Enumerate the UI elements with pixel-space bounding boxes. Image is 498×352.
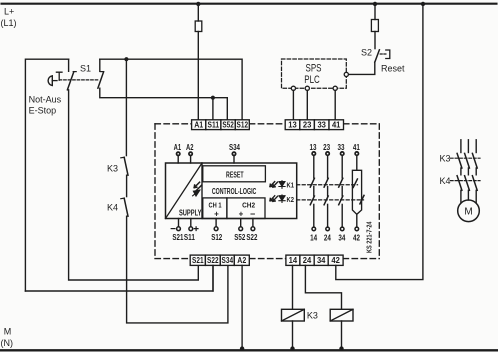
svg-text:S21: S21 xyxy=(192,256,204,265)
svg-text:S52: S52 xyxy=(234,233,245,242)
svg-text:+: + xyxy=(214,210,219,219)
wire: S22 return xyxy=(25,265,213,291)
svg-text:PLC: PLC xyxy=(304,74,320,86)
svg-text:KS 221-7-24: KS 221-7-24 xyxy=(365,221,374,253)
svg-text:42: 42 xyxy=(331,256,340,265)
e-stop mushroom head xyxy=(48,76,52,86)
pin A1 xyxy=(177,152,180,163)
node: K4 on rail xyxy=(339,346,343,350)
wire: 14 to K3 coil xyxy=(292,265,294,309)
contact S1a (E-stop NC contact) xyxy=(67,59,76,90)
three phase line 2 xyxy=(465,140,470,200)
svg-text:A1: A1 xyxy=(194,121,203,130)
svg-text:S1: S1 xyxy=(80,64,91,74)
labels terminal strip S21 S22 S34 A2 xyxy=(192,256,247,265)
pin S21 xyxy=(177,219,181,231)
svg-text:A2: A2 xyxy=(237,256,246,265)
linkage K2 dashed xyxy=(297,199,364,201)
minus sign at S21 xyxy=(171,228,175,230)
terminal circle SPS to 23 xyxy=(305,86,309,90)
svg-text:K3: K3 xyxy=(107,164,118,174)
svg-text:42: 42 xyxy=(353,233,360,242)
svg-text:(L1): (L1) xyxy=(1,18,17,28)
svg-text:K4: K4 xyxy=(107,203,118,213)
node: A2 on rail xyxy=(240,346,244,350)
supply rail L+ (L1) xyxy=(2,3,497,5)
wire: K3 to K4 contact xyxy=(126,175,128,196)
svg-text:S22: S22 xyxy=(246,233,257,242)
e-stop stem xyxy=(52,80,57,82)
supply section divider xyxy=(201,163,203,219)
linkage K3 contactor dashed xyxy=(451,157,481,159)
terminal strip A1 S11 S52 S12 xyxy=(192,120,250,130)
svg-text:CONTROL-LOGIC: CONTROL-LOGIC xyxy=(212,187,257,196)
svg-text:E-Stop: E-Stop xyxy=(29,106,57,116)
fuse F2 xyxy=(371,20,378,32)
svg-text:24: 24 xyxy=(303,256,312,265)
terminal strip 13 23 33 41 xyxy=(285,120,343,130)
svg-text:M: M xyxy=(4,326,12,336)
node: top rail to fuse F1 xyxy=(196,2,200,6)
node: S11 tap xyxy=(211,96,215,100)
node: K3/K4 chain tap xyxy=(124,57,128,61)
svg-text:S11: S11 xyxy=(184,233,195,242)
wire: S2 to SPS/PLC xyxy=(349,62,375,74)
contact column 41-42 (NC guided) xyxy=(352,152,364,231)
svg-text:A2: A2 xyxy=(186,143,194,152)
wire: A2 to M rail xyxy=(241,265,243,350)
svg-text:S21: S21 xyxy=(172,233,183,242)
linkage K1 dashed xyxy=(297,184,358,186)
SPS / PLC box xyxy=(282,59,347,88)
labels terminal strip 14 24 34 42 xyxy=(289,256,341,265)
svg-text:14: 14 xyxy=(310,233,317,242)
CH1 box xyxy=(203,198,227,219)
svg-text:41: 41 xyxy=(353,143,360,152)
svg-text:34: 34 xyxy=(338,233,345,242)
wire: S22 terminal down-left S22 row xyxy=(212,265,214,291)
pin labels S21 S11 S12 S52 S22 xyxy=(172,233,257,242)
wire: K4 contact to S34 xyxy=(127,216,228,323)
e-stop actuator bar xyxy=(56,72,62,80)
actuator dashed link S1 xyxy=(59,79,99,81)
svg-text:Reset: Reset xyxy=(381,64,405,74)
svg-text:34: 34 xyxy=(317,256,326,265)
device inner box xyxy=(166,163,297,219)
svg-text:S34: S34 xyxy=(222,256,234,265)
contact K3 (aux NC) xyxy=(121,157,128,175)
wire: K4 coil to rail xyxy=(341,321,343,350)
svg-text:S11: S11 xyxy=(208,121,220,130)
pin S12 xyxy=(214,219,218,231)
svg-text:33: 33 xyxy=(338,143,345,152)
svg-text:A1: A1 xyxy=(174,143,182,152)
svg-text:S34: S34 xyxy=(229,143,240,152)
wire: tap to S11 xyxy=(212,98,214,120)
reset box xyxy=(203,166,266,182)
svg-text:33: 33 xyxy=(317,121,326,130)
contact column 33-34 xyxy=(339,152,344,231)
wire: tap to K3 contact xyxy=(125,59,127,155)
wire: fuse F1 to terminal A1 xyxy=(197,32,199,120)
CH2 box xyxy=(227,198,265,219)
pin S22 xyxy=(251,219,255,231)
wire: fuse F2 to switch S2 xyxy=(374,32,376,49)
svg-text:41: 41 xyxy=(332,121,341,130)
terminal strip S21 S22 S34 A2 xyxy=(190,255,249,265)
neutral rail M (N) xyxy=(0,349,498,351)
svg-text:23: 23 xyxy=(303,121,312,130)
fuse F1 xyxy=(195,21,202,32)
svg-text:S22: S22 xyxy=(207,256,219,265)
svg-text:K3: K3 xyxy=(307,311,318,321)
supply diagonal xyxy=(166,163,203,219)
svg-text:13: 13 xyxy=(310,143,317,152)
svg-text:SUPPLY: SUPPLY xyxy=(179,209,202,218)
actuator link S2 xyxy=(380,53,387,55)
svg-text:24: 24 xyxy=(324,233,331,242)
pin S34 xyxy=(232,152,235,163)
labels terminal strip 13 23 33 41 xyxy=(288,121,341,130)
svg-text:CH 1: CH 1 xyxy=(209,201,222,210)
svg-text:RESET: RESET xyxy=(226,169,244,179)
svg-text:(N): (N) xyxy=(1,338,14,348)
pin labels 13 23 33 41 xyxy=(310,143,361,152)
wire: SPS to terminal 23 xyxy=(306,90,308,119)
contact K4 (aux NC) xyxy=(121,198,128,216)
coil K3 xyxy=(282,309,305,321)
three phase line 1 xyxy=(457,140,462,203)
node: top rail to contactor branch xyxy=(421,2,425,6)
svg-text:S12: S12 xyxy=(237,121,249,130)
wire: rail to fuse F1 xyxy=(197,4,199,21)
supply LED diode xyxy=(193,190,200,196)
svg-text:K1: K1 xyxy=(287,181,295,190)
node: top rail to fuse F2 xyxy=(373,2,377,6)
linkage K4 contactor dashed xyxy=(451,180,481,182)
relay K2 symbol xyxy=(270,196,278,202)
wire: 24 to K4 coil xyxy=(305,265,341,309)
wire: S1a to S21 loop xyxy=(69,90,199,280)
svg-text:K2: K2 xyxy=(287,195,295,204)
svg-text:S2: S2 xyxy=(361,47,372,57)
svg-text:S52: S52 xyxy=(222,121,234,130)
motor M xyxy=(458,200,480,222)
pushbutton actuator symbol of S2 xyxy=(386,50,390,59)
terminal strip 14 24 34 42 xyxy=(286,255,343,265)
contact S1b (E-stop NC contact) xyxy=(98,59,104,88)
wire: SPS to terminal 13 xyxy=(292,90,294,119)
three phase line 3 xyxy=(472,140,477,203)
pin A2 xyxy=(189,152,192,163)
svg-text:M: M xyxy=(464,207,472,218)
wire: S1 top to S12 xyxy=(100,59,242,120)
wire: 42 terminal to top rail branch xyxy=(336,4,423,280)
wire: rail to fuse F2 xyxy=(374,4,376,20)
wire: K3 coil to rail xyxy=(292,321,294,350)
node: K3 on rail xyxy=(290,346,294,350)
wire: SPS to terminal 41 xyxy=(334,90,336,119)
plus sign at S11 xyxy=(194,227,198,231)
pin S52 xyxy=(239,219,243,231)
svg-text:23: 23 xyxy=(323,143,330,152)
svg-text:L+: L+ xyxy=(4,7,14,17)
terminal circle SPS to 13 xyxy=(291,86,295,90)
contact column 23-24 xyxy=(324,152,329,231)
switch S2 (reset button, NO contact) xyxy=(375,50,380,62)
svg-text:SPS: SPS xyxy=(306,63,322,75)
terminal circle SPS to 41 xyxy=(333,86,337,90)
svg-text:13: 13 xyxy=(288,121,297,130)
svg-text:+: + xyxy=(239,210,244,219)
coil K4 xyxy=(330,309,353,321)
labels terminal strip A1 S11 S52 S12 xyxy=(194,121,248,130)
supply LED arrows xyxy=(194,182,201,190)
svg-text:S12: S12 xyxy=(211,233,222,242)
svg-text:Not-Aus: Not-Aus xyxy=(29,95,62,105)
terminal circle on SPS box right xyxy=(344,72,348,76)
svg-text:14: 14 xyxy=(289,256,298,265)
device outline dashed box xyxy=(155,124,379,259)
contact column 13-14 xyxy=(310,152,315,231)
wire: E-stop loop left side xyxy=(25,59,68,291)
pin labels A1 A2 S34 xyxy=(174,143,241,152)
svg-text:K4: K4 xyxy=(440,176,451,186)
relay K1 symbol xyxy=(270,182,278,188)
pin labels 14 24 34 42 xyxy=(310,233,360,242)
svg-text:−: − xyxy=(250,209,255,219)
svg-text:K3: K3 xyxy=(440,154,451,164)
pin S11 xyxy=(189,219,193,231)
wire: S1b to S11/S52 xyxy=(100,88,228,120)
